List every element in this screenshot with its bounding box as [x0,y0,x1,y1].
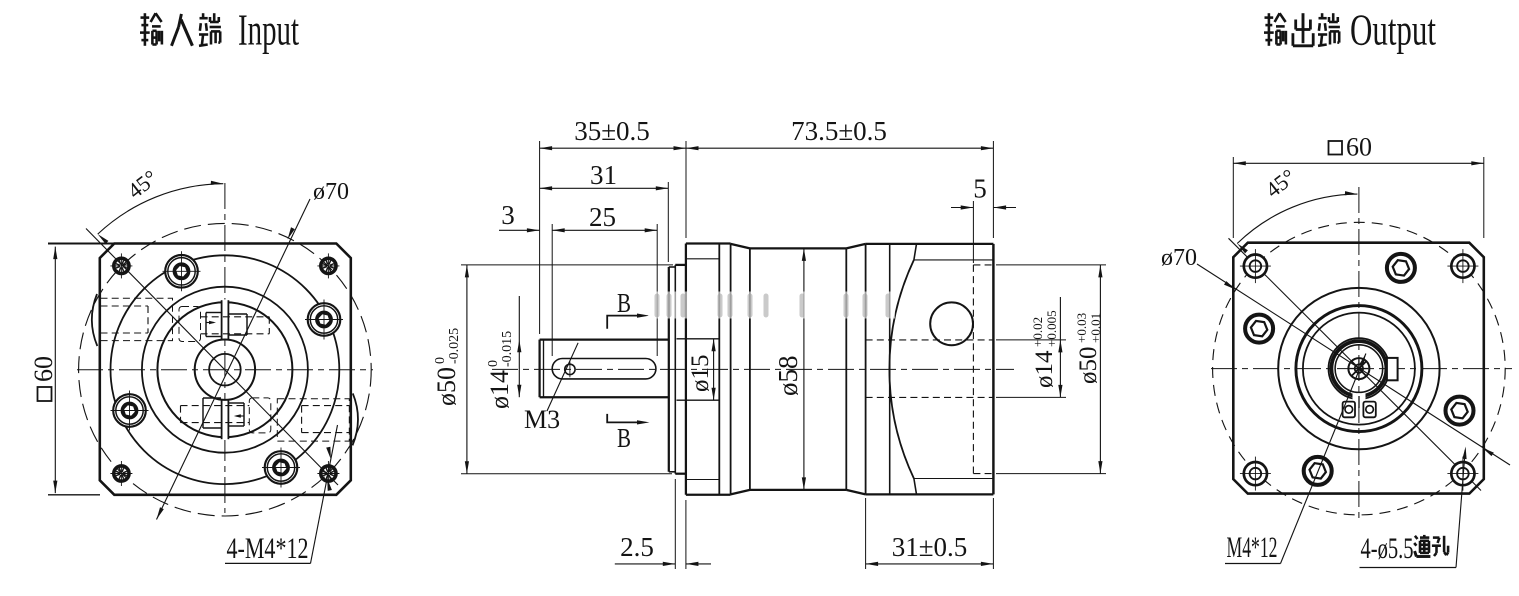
dim 3 [499,229,539,231]
pilot spigot ø50 [675,264,686,266]
through hole ø5.5 [1244,462,1267,485]
dim ø14 0/-0.015 [518,296,520,397]
dim 31 [540,187,669,189]
svg-text:4-ø5.5: 4-ø5.5 [1361,532,1414,565]
svg-text:Input: Input [238,6,299,55]
svg-text:ø70: ø70 [1161,245,1197,271]
output flange block [866,243,994,245]
svg-text:25: 25 [589,202,616,232]
input flange square outline [100,244,351,495]
svg-text:ø58: ø58 [773,356,803,397]
title: 输出端 Output [1265,16,1274,19]
svg-text:-0.015: -0.015 [500,331,515,367]
svg-text:0: 0 [486,360,501,367]
hidden side pocket right [277,399,349,441]
front boss circle [142,287,308,453]
title: 输入端 Input [141,16,150,19]
svg-text:60: 60 [29,356,58,382]
through hole ø5.5 [1451,462,1474,485]
hidden clamp screw pocket bottom-right [249,398,270,433]
dim 73.5±0.5 [686,147,993,149]
corner screw M4*12 head [321,466,336,481]
dim ø15 [713,339,715,400]
bearing cap [668,267,670,472]
dim ø14 +0.02/+0.005 [1059,297,1061,397]
dimension square60 [54,247,56,494]
svg-text:0: 0 [433,357,448,364]
output shaft circle [1329,338,1390,399]
horizontal centerline [1211,368,1512,370]
svg-text:M3: M3 [524,405,560,434]
svg-text:B: B [617,423,631,453]
flange through hole [930,302,973,345]
turned corner concave arc [889,260,914,479]
socket head cap screw counterbore [165,255,198,288]
clamp hub outer circle [157,302,292,437]
hidden clamp screw pocket top-left [179,307,201,342]
shaft bore ø15 through plate [677,338,720,340]
svg-text:73.5±0.5: 73.5±0.5 [791,116,887,146]
motor shaft bore ø8 [209,354,241,386]
svg-text:ø14: ø14 [1031,350,1058,388]
svg-text:ø50: ø50 [1075,347,1102,385]
svg-text:ø15: ø15 [687,355,714,393]
retaining ring [1331,341,1386,396]
center hole with cross [1348,358,1369,379]
clamp hub slit top [222,300,229,340]
svg-text:60: 60 [1346,133,1372,162]
svg-text:+0.01: +0.01 [1088,313,1103,343]
circlip lug right [1363,402,1375,418]
svg-text:ø14: ø14 [485,370,514,409]
svg-text:31: 31 [590,160,617,190]
centerline of shaft axis [492,368,1014,370]
dim 2.5 [615,563,676,565]
M3 tapped hole [565,364,575,374]
bolt circle ø70 (dashed) [1213,222,1506,515]
input coupling circle [195,340,255,400]
socket head cap screw counterbore [113,394,146,427]
svg-text:35±0.5: 35±0.5 [574,116,650,146]
watermark ghost band [648,292,895,319]
dim ø50 0/-0.025 [466,265,468,474]
plate corner chamfer line bottom [686,479,719,481]
hex socket screw M4 [1245,315,1273,343]
svg-text:-0.025: -0.025 [447,328,462,364]
coupling keyway blocks [206,312,222,314]
dim ø50 +0.03/+0.01 [1099,265,1101,474]
mounting plate (square 60) [685,244,687,495]
socket head cap screw counterbore [308,303,341,336]
corner screw M4*12 head [114,258,129,273]
dim 31±0.5 [866,563,994,565]
svg-text:+0.03: +0.03 [1074,313,1089,343]
left edge lobe arc [92,294,97,346]
svg-text:+0.005: +0.005 [1044,310,1059,347]
shaft groove circle [1335,345,1383,393]
vertical centerline [1358,187,1360,520]
input shaft ø14 [538,340,540,398]
hidden output bore ø14 [866,339,994,341]
dim 25 [552,229,657,231]
dim square60 top [1233,162,1484,164]
vertical centerline [224,183,226,513]
output boss circle [1278,288,1439,449]
section mark B bottom [607,414,642,423]
leader line for ø70 [157,199,311,520]
flange diagonal [1229,238,1482,490]
bearing seat circle [1296,306,1422,432]
svg-text:Output: Output [1350,6,1436,55]
dim ø58 [803,248,805,490]
circlip lug left [1343,402,1355,418]
dim 35±0.5 [540,147,686,149]
svg-text:4-M4*12: 4-M4*12 [227,532,309,565]
through hole ø5.5 [1451,255,1474,278]
output flange chamfer line top [914,259,994,261]
bolt circle ø70 (dashed) [79,223,372,516]
shaft keyway notch [1387,358,1398,380]
socket head cap screw counterbore [265,451,298,484]
45deg dimension arc [98,184,224,234]
hex socket screw M4 [1304,457,1332,485]
svg-text:M4*12: M4*12 [1227,531,1278,564]
hidden side pocket left [101,298,173,340]
svg-text:+0.02: +0.02 [1030,317,1045,347]
through hole ø5.5 [1244,255,1267,278]
gear housing ø58 [750,247,846,249]
front ring section [730,244,732,495]
output flange chamfer line bottom [914,478,994,480]
circlip gap at bottom [1353,394,1366,407]
flange diagonal [86,229,338,486]
section mark B top [607,316,642,329]
dim 5 [951,207,973,209]
hex socket screw M4 [1387,254,1415,282]
leader line for ø70 [1197,264,1510,465]
45deg dimension arc [1237,194,1357,243]
corner screw M4*12 head [321,258,336,273]
svg-text:5: 5 [973,174,987,204]
corner screw M4*12 head [114,466,129,481]
svg-text:31±0.5: 31±0.5 [892,532,968,562]
hidden output recess ø50 [972,265,974,474]
output flange square outline [1233,243,1484,494]
horizontal centerline [77,369,373,371]
housing bore circle [110,255,339,484]
clamp hub slit bottom [222,400,229,440]
right edge lobe arc [353,393,358,445]
bearing inner circle [1303,313,1415,425]
svg-text:ø50: ø50 [432,367,461,406]
flange corner tangent line [889,244,891,495]
keyway slot B-B [552,359,656,379]
hex socket screw M4 [1446,397,1474,425]
svg-text:2.5: 2.5 [620,532,654,562]
svg-text:B: B [617,288,631,318]
plate corner chamfer line top [686,258,719,260]
svg-text:ø70: ø70 [313,179,349,205]
svg-text:3: 3 [501,200,515,230]
